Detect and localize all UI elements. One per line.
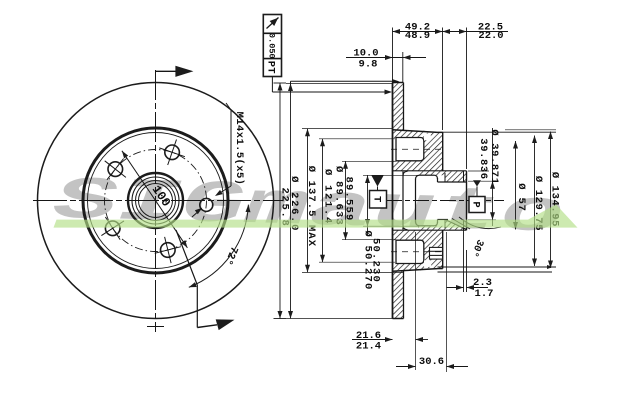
section ring bottom edge bbox=[393, 318, 404, 320]
dim dia 121.4 bbox=[322, 139, 324, 262]
section bore step top bbox=[437, 178, 439, 182]
section flange underside top bbox=[393, 170, 467, 172]
svg-text:P: P bbox=[469, 201, 481, 207]
section hatch flange corner top bbox=[424, 133, 442, 171]
ext line hub face top bbox=[466, 28, 468, 170]
section bearing bore top edge bbox=[438, 181, 467, 183]
dim dia 39.871 39.836 bbox=[492, 128, 494, 226]
72 degree arc bbox=[189, 205, 249, 288]
ext line 170 right bbox=[468, 170, 489, 172]
ext line disc top bbox=[286, 83, 392, 85]
dim 2.3 1.7 bbox=[447, 287, 464, 289]
section hatch above bore bbox=[418, 171, 438, 175]
section flange underside bottom bbox=[393, 229, 467, 231]
hub bore circle bbox=[139, 184, 173, 218]
dim dia 57 bbox=[515, 141, 517, 230]
ext line hub barrel bottom bbox=[415, 232, 417, 370]
section flange face bottom bbox=[442, 230, 444, 268]
bolt hole 2 bbox=[108, 162, 123, 177]
bolt hole 3 bbox=[105, 221, 120, 236]
ext stub ring right bbox=[402, 52, 404, 82]
section flange face top bbox=[442, 132, 444, 170]
section bearing bore bottom edge bbox=[438, 219, 449, 221]
svg-text:22.0: 22.0 bbox=[478, 30, 503, 42]
centerline end tick bbox=[147, 326, 164, 328]
section hub barrel left face bbox=[415, 179, 417, 223]
M14 leader bbox=[226, 103, 231, 110]
svg-text:21.4: 21.4 bbox=[356, 340, 381, 352]
hole5 arrow bbox=[192, 210, 201, 218]
dim 49.2 48.9 bbox=[393, 31, 443, 33]
svg-text:M14x1.5(x5): M14x1.5(x5) bbox=[233, 112, 245, 186]
section hatch ring top bbox=[393, 83, 403, 130]
section hat surface bottom bbox=[393, 269, 438, 272]
ext lines 50.27 bbox=[363, 174, 419, 176]
dim dia 134.95 bbox=[550, 132, 552, 269]
section ring right face bottom bbox=[403, 271, 405, 319]
vertical centerline bbox=[155, 70, 157, 332]
ext horiz right top bbox=[505, 129, 556, 131]
ext lines 39.87 bbox=[468, 180, 496, 182]
dim 21.6 21.4 bbox=[352, 339, 393, 341]
section bore chamfer bottom bbox=[445, 220, 467, 230]
ext line 446 bottom bbox=[446, 232, 448, 372]
hub ring 2 bbox=[132, 177, 179, 224]
svg-text:T: T bbox=[370, 196, 382, 202]
section bearing seat step top bbox=[444, 173, 446, 182]
section bore top edge bbox=[420, 174, 434, 176]
svg-text:89.559: 89.559 bbox=[343, 176, 355, 221]
ext line left face top bbox=[392, 28, 394, 81]
wheel bolt hole bottom bbox=[396, 240, 424, 263]
section bore bottom edge bbox=[420, 225, 434, 227]
svg-text:50.230: 50.230 bbox=[370, 238, 382, 283]
section hatch bearing wall bottom bbox=[424, 226, 467, 230]
ext lines 137.5 bbox=[302, 128, 392, 130]
wheel bolt hole top bbox=[396, 138, 424, 161]
bolt hole centerline bottom bbox=[391, 251, 446, 253]
section hub right face bbox=[466, 171, 468, 230]
bolt hole centerline top bbox=[391, 148, 446, 150]
runout tolerance frame bbox=[263, 15, 281, 77]
section cavity fillet top bbox=[403, 171, 408, 176]
ext lines 89.6 bbox=[342, 160, 396, 162]
svg-text:30.6: 30.6 bbox=[419, 356, 444, 368]
datum box T bbox=[371, 175, 383, 186]
datum P bbox=[473, 180, 481, 186]
hub ring 3 bbox=[136, 181, 176, 221]
section hatch flange above hole bbox=[393, 131, 424, 138]
section left face bbox=[392, 83, 394, 319]
dim 22.5 22.0 bbox=[443, 31, 509, 33]
svg-text:39.836: 39.836 bbox=[477, 138, 489, 179]
ext line disc bottom bbox=[286, 318, 403, 320]
svg-text:0.050: 0.050 bbox=[266, 33, 276, 59]
ext line mounting face bbox=[442, 28, 444, 131]
horizontal centerline bbox=[33, 200, 283, 202]
section hat wall inner face bbox=[402, 172, 404, 230]
section hatch flange below hole bbox=[393, 161, 430, 171]
ext horiz right bottom bbox=[438, 266, 557, 268]
bolt hole 1 bbox=[165, 145, 180, 160]
svg-text:PT: PT bbox=[265, 61, 277, 74]
section bore step bottom bbox=[437, 220, 439, 224]
dim dia 50.270 50.230 bbox=[367, 176, 369, 236]
svg-text:Ø 57: Ø 57 bbox=[515, 183, 527, 211]
dim dia 89.633 89.559 bbox=[345, 161, 347, 239]
hat inner circle thin bbox=[88, 133, 224, 269]
section hatch bearing wall top bbox=[424, 171, 467, 182]
bolt hole 4 bbox=[161, 243, 176, 258]
section cut line bottom bbox=[176, 230, 197, 285]
ext lines 121.4 bbox=[319, 138, 395, 140]
section seal step bbox=[463, 171, 465, 182]
section flange corner edge top bbox=[438, 131, 443, 133]
section cut line top bbox=[156, 70, 177, 72]
PT leader bbox=[271, 77, 273, 93]
section hatch ring bottom bbox=[393, 271, 403, 318]
section cavity fillet bottom bbox=[403, 225, 408, 230]
dim dia 137.5 MAX bbox=[307, 129, 309, 273]
section bearing seat step bottom bbox=[444, 220, 446, 229]
dim 30.6 bbox=[396, 366, 416, 368]
section hatch flange under hole bottom2 bbox=[393, 264, 424, 271]
dim dia 226.0 225.8 bbox=[290, 84, 292, 319]
bolt hole 5 bbox=[200, 198, 213, 211]
ext line seal step bbox=[463, 230, 465, 292]
svg-text:48.9: 48.9 bbox=[405, 30, 430, 42]
section hat surface top bbox=[393, 130, 438, 133]
disc outer circle bbox=[38, 83, 274, 319]
section hatch flange corner bottom bbox=[424, 231, 442, 269]
bolt circle diameter line 100 bbox=[122, 151, 187, 248]
dim dia 129.75 bbox=[534, 136, 536, 267]
runout symbol bbox=[267, 18, 279, 29]
section ring top edge bbox=[393, 82, 404, 84]
hub ring outer bbox=[128, 173, 183, 228]
svg-text:Ø 121.4: Ø 121.4 bbox=[321, 169, 333, 225]
green swoosh bbox=[54, 205, 578, 228]
svg-text:Ø 137.5 MAX: Ø 137.5 MAX bbox=[305, 166, 317, 247]
section flange corner edge bottom bbox=[438, 268, 443, 270]
disc diameter dim line left view bbox=[274, 82, 287, 84]
30 deg chamfer arc bbox=[459, 217, 501, 229]
section ring right face top bbox=[403, 83, 405, 131]
hat edge circle thick bbox=[83, 128, 228, 273]
svg-text:9.8: 9.8 bbox=[359, 58, 378, 70]
section axis centerline bbox=[386, 200, 504, 202]
svg-text:1.7: 1.7 bbox=[475, 288, 494, 300]
section hatch flange below hole bottom bbox=[393, 230, 430, 240]
bolt circle dashed bbox=[105, 150, 207, 252]
dim 10.0 9.8 bbox=[346, 57, 426, 59]
